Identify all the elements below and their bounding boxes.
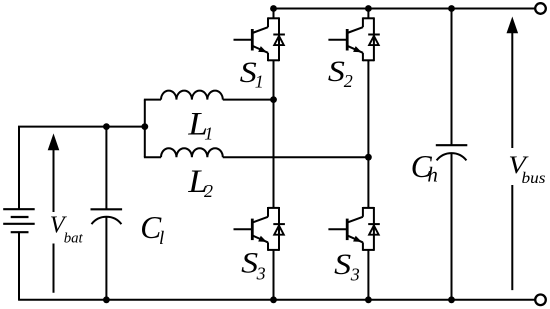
label L1: [187, 107, 213, 144]
transistor S1 (IGBT with antiparallel diode): [234, 17, 285, 61]
node: S1 top rail junction: [270, 5, 277, 12]
S1: top tee: [268, 17, 279, 19]
terminal: negative output: [535, 295, 546, 306]
battery Vbat: short negative plate: [11, 216, 29, 218]
wire: phase leg B link: [367, 157, 369, 208]
S1: IGBT gate bar: [251, 29, 254, 51]
wire: S2 collector stem from top rail: [367, 9, 369, 19]
S2: IGBT gate lead: [328, 39, 347, 41]
label Cl: [140, 210, 164, 249]
inductor L2: [144, 148, 369, 157]
wire: S1 collector stem from top rail: [273, 9, 275, 19]
label Vbus: [508, 152, 545, 187]
S3R: bottom tee: [363, 249, 374, 251]
wire: phase leg A link (crosses L2, no junction): [273, 100, 275, 208]
battery Vbat: [3, 209, 35, 232]
battery Vbat: long positive plate (cell 2): [3, 223, 35, 225]
node: leg A bottom rail junction: [270, 296, 277, 303]
label S3 (left): [241, 247, 265, 283]
wire: S3 (right) emitter to bottom rail: [367, 250, 369, 300]
svg-text:1: 1: [204, 124, 213, 144]
S3L: IGBT emitter lead with arrow: [252, 235, 268, 242]
svg-text:3: 3: [350, 265, 360, 285]
label Ch: [411, 149, 438, 187]
S2: top tee: [363, 17, 374, 19]
S1: IGBT collector lead: [267, 17, 269, 27]
wire: S1 emitter to L1 node: [273, 60, 275, 99]
label S3 (right): [334, 249, 360, 285]
S3R: freewheeling diode: [373, 207, 375, 251]
svg-text:bus: bus: [522, 170, 546, 187]
transistor S3 left (IGBT with antiparallel diode): [234, 207, 285, 251]
transistor S3 right (IGBT with antiparallel diode): [328, 207, 379, 251]
wire: bottom rail (- bus): [18, 299, 535, 301]
svg-text:h: h: [427, 163, 438, 187]
S3R: IGBT gate bar: [346, 219, 349, 241]
wire: Ch bottom lead: [451, 153, 453, 300]
S3L: IGBT gate lead: [234, 228, 253, 230]
S2: freewheeling diode: [373, 17, 375, 61]
capacitor Ch: [436, 145, 468, 160]
wire: inductor common riser: [144, 100, 146, 158]
node: L2 / phase leg B junction: [365, 154, 372, 161]
wire: Cl top lead: [105, 127, 107, 210]
S3R: top tee: [363, 207, 374, 209]
battery Vbat: short negative plate (cell 2): [11, 231, 29, 233]
svg-text:3: 3: [256, 264, 266, 284]
S1: IGBT gate lead: [234, 39, 253, 41]
S3L: IGBT collector lead: [267, 207, 269, 217]
S3L: freewheeling diode: [278, 207, 280, 251]
node: inductor common node: [141, 123, 148, 130]
svg-text:2: 2: [204, 181, 213, 201]
wire: battery positive lead up and across to inductor node: [19, 127, 145, 210]
label S1: [240, 57, 264, 92]
node: S2 top rail junction: [365, 5, 372, 12]
S2: IGBT gate bar: [346, 29, 349, 51]
svg-text:S: S: [334, 249, 351, 281]
wire: top rail (+ bus): [273, 8, 536, 10]
node: leg B bottom rail junction: [365, 296, 372, 303]
arrow: Vbat voltage direction: [47, 133, 84, 292]
S3L: top tee: [268, 207, 279, 209]
node: Ch top rail junction: [448, 5, 455, 12]
S2: IGBT collector lead: [362, 17, 364, 27]
label L2: [187, 164, 213, 201]
svg-text:S: S: [328, 56, 345, 88]
S3L: bottom tee: [268, 249, 279, 251]
S3R: IGBT collector lead: [362, 207, 364, 217]
terminal: positive output: [535, 3, 546, 14]
svg-text:bat: bat: [64, 230, 84, 246]
wire: battery negative lead to bottom rail: [18, 232, 20, 300]
arrow: Vbus voltage direction: [505, 17, 546, 291]
S2: IGBT emitter lead with arrow: [347, 46, 363, 53]
battery Vbat: long positive plate: [3, 208, 35, 210]
svg-text:l: l: [159, 228, 164, 249]
node: Cl top junction: [103, 123, 110, 130]
S3R: IGBT gate lead: [328, 228, 347, 230]
svg-text:1: 1: [255, 72, 264, 92]
label Vbat: [50, 211, 84, 246]
svg-text:2: 2: [344, 71, 353, 91]
S2: bottom tee: [363, 59, 374, 61]
wire: S3 (left) emitter to bottom rail: [273, 250, 275, 300]
node: Cl bottom rail junction: [103, 296, 110, 303]
S3R: IGBT emitter lead with arrow: [347, 235, 363, 242]
transistor S2 (IGBT with antiparallel diode): [328, 17, 379, 61]
wire: Cl bottom lead: [105, 217, 107, 300]
node: L1 / phase leg A junction: [270, 96, 277, 103]
wire: Ch top lead: [451, 9, 453, 146]
S3L: IGBT gate bar: [251, 219, 254, 241]
label S2: [328, 56, 353, 91]
inductor L1: [144, 91, 274, 100]
S1: IGBT emitter lead with arrow: [252, 46, 268, 53]
wire: S2 emitter to L2 node: [367, 60, 369, 157]
node: Ch bottom rail junction: [448, 296, 455, 303]
S1: freewheeling diode: [278, 17, 280, 61]
S1: bottom tee: [268, 59, 279, 61]
capacitor Cl: [91, 209, 123, 224]
